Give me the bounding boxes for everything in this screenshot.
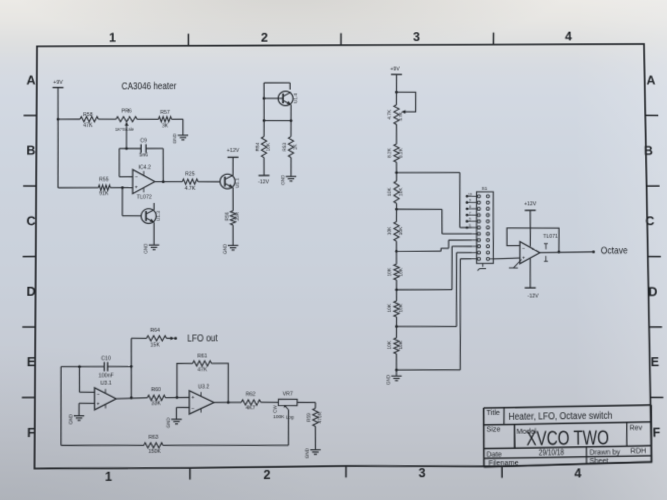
svg-text:CW: CW bbox=[272, 405, 277, 413]
svg-text:C9: C9 bbox=[140, 138, 147, 144]
svg-text:4: 4 bbox=[574, 466, 581, 480]
svg-text:8.2K: 8.2K bbox=[398, 147, 404, 158]
svg-text:R57: R57 bbox=[160, 110, 170, 116]
svg-text:R25: R25 bbox=[185, 171, 195, 177]
svg-text:A: A bbox=[646, 73, 655, 87]
svg-text:91K: 91K bbox=[99, 191, 109, 197]
svg-text:100K: 100K bbox=[273, 414, 285, 420]
svg-text:U3.1: U3.1 bbox=[100, 380, 111, 386]
svg-text:150K: 150K bbox=[148, 449, 161, 455]
svg-text:10K: 10K bbox=[398, 226, 404, 235]
svg-text:R61: R61 bbox=[197, 353, 207, 359]
svg-text:5n6: 5n6 bbox=[139, 152, 148, 158]
svg-text:R55: R55 bbox=[99, 177, 109, 183]
svg-text:R56: R56 bbox=[224, 212, 230, 221]
svg-text:10: 10 bbox=[468, 192, 472, 196]
svg-text:R53: R53 bbox=[282, 142, 288, 151]
svg-text:8: 8 bbox=[469, 205, 471, 209]
svg-text:GND: GND bbox=[222, 243, 227, 254]
svg-text:GND: GND bbox=[166, 417, 171, 428]
svg-text:Drawn by: Drawn by bbox=[589, 448, 620, 456]
svg-text:–: – bbox=[135, 175, 138, 180]
svg-text:2: 2 bbox=[261, 31, 268, 45]
svg-text:8.2K: 8.2K bbox=[387, 147, 393, 158]
svg-text:4.7K: 4.7K bbox=[398, 112, 403, 121]
svg-text:+12V: +12V bbox=[524, 202, 537, 208]
svg-text:3: 3 bbox=[418, 466, 425, 480]
svg-text:B: B bbox=[26, 144, 35, 158]
svg-text:Date: Date bbox=[486, 450, 501, 458]
svg-text:R64: R64 bbox=[150, 328, 160, 334]
svg-text:6: 6 bbox=[469, 217, 471, 221]
svg-text:TL071: TL071 bbox=[543, 234, 558, 240]
svg-text:RDH: RDH bbox=[630, 447, 646, 455]
svg-text:S1: S1 bbox=[481, 186, 487, 192]
svg-text:GND: GND bbox=[304, 447, 309, 458]
svg-text:PR6: PR6 bbox=[121, 109, 131, 115]
svg-text:Octave: Octave bbox=[601, 246, 629, 257]
svg-text:GND: GND bbox=[386, 374, 391, 385]
svg-text:F: F bbox=[652, 426, 660, 440]
svg-text:10K: 10K bbox=[398, 303, 404, 312]
svg-text:3: 3 bbox=[413, 30, 420, 44]
svg-text:C10: C10 bbox=[101, 356, 111, 362]
svg-text:33R: 33R bbox=[235, 212, 241, 221]
svg-text:1K*Scale: 1K*Scale bbox=[115, 127, 134, 132]
svg-text:C: C bbox=[26, 214, 35, 228]
svg-text:+12V: +12V bbox=[227, 148, 240, 154]
svg-text:CA3046 heater: CA3046 heater bbox=[121, 81, 177, 92]
svg-text:R54: R54 bbox=[255, 142, 261, 151]
svg-text:GND: GND bbox=[280, 174, 285, 185]
svg-text:Log: Log bbox=[286, 415, 295, 421]
svg-text:+: + bbox=[522, 256, 525, 261]
svg-text:R58: R58 bbox=[83, 112, 93, 118]
svg-text:+9V: +9V bbox=[53, 80, 63, 86]
svg-text:10K: 10K bbox=[387, 303, 393, 312]
svg-text:B: B bbox=[644, 144, 653, 158]
svg-text:E: E bbox=[27, 355, 36, 369]
svg-text:10K: 10K bbox=[266, 142, 272, 151]
svg-text:15K: 15K bbox=[150, 342, 160, 348]
svg-text:U1.4: U1.4 bbox=[293, 93, 299, 103]
svg-text:GND: GND bbox=[143, 243, 148, 254]
svg-text:-12V: -12V bbox=[258, 179, 270, 185]
svg-text:R62: R62 bbox=[246, 392, 256, 398]
svg-text:+: + bbox=[191, 396, 194, 401]
svg-text:D: D bbox=[648, 285, 657, 299]
svg-text:5: 5 bbox=[469, 224, 471, 228]
svg-text:LFO out: LFO out bbox=[187, 333, 218, 344]
svg-text:10K: 10K bbox=[387, 340, 393, 349]
svg-text:Size: Size bbox=[486, 425, 500, 433]
svg-text:GND: GND bbox=[172, 133, 177, 144]
svg-text:1: 1 bbox=[109, 31, 116, 45]
svg-text:–: – bbox=[192, 406, 195, 411]
svg-text:33K: 33K bbox=[151, 401, 161, 407]
svg-text:4K7: 4K7 bbox=[246, 405, 256, 411]
svg-text:Filename: Filename bbox=[488, 459, 518, 467]
svg-text:GND: GND bbox=[68, 413, 73, 424]
svg-text:47K: 47K bbox=[198, 367, 208, 373]
svg-text:10K: 10K bbox=[387, 267, 393, 276]
svg-text:A: A bbox=[26, 73, 35, 87]
svg-text:470R: 470R bbox=[317, 411, 323, 423]
svg-text:-12V: -12V bbox=[527, 293, 539, 299]
svg-text:D: D bbox=[26, 285, 35, 299]
svg-text:9: 9 bbox=[469, 198, 471, 202]
svg-text:29/10/18: 29/10/18 bbox=[539, 448, 564, 457]
svg-text:Heater, LFO, Octave switch: Heater, LFO, Octave switch bbox=[508, 411, 612, 423]
svg-text:TL072: TL072 bbox=[137, 195, 152, 201]
svg-text:10K: 10K bbox=[398, 267, 404, 276]
svg-text:R63: R63 bbox=[149, 435, 159, 441]
svg-text:U3.2: U3.2 bbox=[198, 384, 209, 390]
svg-text:U1.1: U1.1 bbox=[235, 178, 241, 188]
svg-text:R59: R59 bbox=[306, 413, 312, 422]
svg-text:U1.3: U1.3 bbox=[156, 211, 162, 221]
svg-text:47K: 47K bbox=[83, 123, 93, 129]
svg-text:10K: 10K bbox=[398, 340, 404, 349]
svg-text:Rev: Rev bbox=[629, 424, 642, 432]
svg-text:XVCO TWO: XVCO TWO bbox=[526, 427, 609, 450]
svg-text:IC4.2: IC4.2 bbox=[138, 165, 151, 171]
svg-text:4: 4 bbox=[565, 30, 572, 44]
svg-text:+: + bbox=[135, 186, 138, 191]
svg-text:3K: 3K bbox=[162, 123, 169, 129]
svg-text:F: F bbox=[27, 426, 35, 440]
svg-text:10K: 10K bbox=[398, 187, 404, 196]
svg-text:C: C bbox=[645, 214, 654, 228]
svg-text:+9V: +9V bbox=[390, 67, 400, 73]
svg-text:E: E bbox=[651, 355, 660, 369]
svg-text:2: 2 bbox=[263, 468, 270, 482]
svg-text:100nF: 100nF bbox=[99, 373, 114, 379]
svg-text:1: 1 bbox=[105, 470, 112, 484]
svg-text:–: – bbox=[522, 246, 525, 251]
svg-text:–: – bbox=[97, 392, 100, 397]
svg-text:Sheet: Sheet bbox=[589, 457, 608, 465]
svg-text:7: 7 bbox=[469, 211, 471, 215]
svg-text:4.7K: 4.7K bbox=[387, 109, 393, 120]
svg-text:1K: 1K bbox=[293, 143, 299, 150]
svg-text:10K: 10K bbox=[387, 226, 393, 235]
svg-text:+: + bbox=[97, 402, 100, 407]
svg-text:VR7: VR7 bbox=[283, 392, 293, 398]
svg-text:Title: Title bbox=[486, 409, 500, 417]
svg-text:R60: R60 bbox=[151, 387, 161, 393]
svg-text:10K: 10K bbox=[387, 187, 393, 196]
svg-text:4.7K: 4.7K bbox=[185, 186, 196, 192]
